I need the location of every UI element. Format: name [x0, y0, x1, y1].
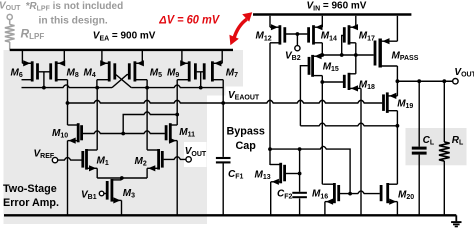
wire RL top	[443, 81, 445, 142]
wire CL top	[418, 81, 420, 146]
wire MPASS source from VIN rail	[396, 16, 398, 41]
wire M16 drain corner	[322, 183, 324, 185]
label M5	[150, 68, 162, 80]
svg-text:Bypass: Bypass	[227, 126, 265, 138]
label CL	[423, 135, 435, 147]
transistor M14	[309, 24, 323, 44]
transistor M20	[381, 183, 397, 205]
wire M10 drain up to VEAOUT	[67, 103, 69, 125]
wire M13 gate	[286, 173, 300, 175]
transistor M18	[344, 73, 361, 92]
wire M8 drain down to VEAOUT node	[67, 80, 69, 103]
wire M10-M11 gates	[83, 131, 165, 134]
transistor M4	[97, 60, 115, 81]
label M20	[398, 190, 414, 202]
wire M11 drain up	[176, 115, 178, 126]
junction dot on gate wire	[121, 132, 125, 136]
junction dot M6/M8 gate node	[42, 86, 46, 90]
white box behind VOUT label (error amp input)	[184, 142, 207, 167]
wire M17 drain down to M18 drain	[355, 43, 357, 74]
label M7	[226, 68, 238, 80]
capacitor CL	[412, 148, 427, 153]
gray box behind load CL RL	[406, 128, 467, 165]
label VOUT (output)	[454, 67, 474, 79]
transistor M16	[324, 183, 339, 205]
label M10	[52, 128, 68, 140]
label M19	[397, 98, 413, 110]
wire M12 drain down to M13	[269, 43, 271, 165]
wire first-stage left drain bus	[22, 85, 113, 88]
terminal VOUT (gray, top-left)	[7, 14, 12, 19]
label M3	[123, 188, 135, 200]
junction dot M17 gate	[340, 53, 344, 57]
wire M2 gate to VOUT input	[164, 157, 187, 160]
gray panel (first-stage PMOS row)	[4, 50, 244, 96]
transistor M13	[270, 163, 285, 185]
ground rail	[4, 214, 456, 216]
capacitor CF1	[216, 158, 231, 162]
junction dot M18 gate tap	[320, 80, 324, 84]
white box behind VEAOUT label	[226, 87, 260, 102]
label M13	[255, 170, 271, 182]
wire M15 gate L	[300, 66, 307, 103]
label RL	[452, 135, 464, 147]
terminal VB2	[295, 46, 300, 51]
gray panel (error-amp lower block)	[4, 96, 208, 225]
junction dot M8/M10 drain on VEAOUT	[66, 101, 70, 105]
svg-text:Two-Stage: Two-Stage	[3, 183, 57, 195]
wire cross-couple to M5 gate	[112, 75, 128, 88]
junction dot CL tap	[417, 79, 421, 83]
label VOUT (gray)	[0, 0, 21, 12]
transistor M10	[68, 123, 82, 144]
transistor M8	[51, 60, 68, 81]
label CF1	[228, 169, 244, 181]
note in this design.	[39, 16, 108, 27]
label VIN = 960 mV	[307, 1, 367, 13]
wire M3 drain to tail dot	[121, 178, 123, 180]
wire M5 drain down	[146, 80, 148, 88]
wire M13 source down to ground	[270, 182, 272, 216]
wire M9/M7 gate to drain wire	[200, 72, 202, 88]
junction dot RL tap	[442, 79, 446, 83]
label MPASS	[392, 50, 419, 62]
svg-text:ΔV = 60 mV: ΔV = 60 mV	[158, 15, 220, 27]
wire M12 source from VIN rail	[269, 16, 271, 27]
wire M16-M20 gates	[340, 191, 380, 194]
label M17	[359, 31, 375, 43]
wire M2 source down to tail	[146, 168, 148, 178]
wire cascode bias L	[123, 112, 177, 134]
junction dot M16/M20 gate node	[348, 192, 352, 196]
label CF2	[277, 189, 293, 201]
wire M16 source down to ground	[324, 202, 326, 216]
transistor M17	[344, 24, 358, 44]
label VB1	[81, 190, 97, 202]
wire M9 drain down to M11 drain	[176, 80, 178, 115]
transistor M19	[384, 92, 398, 113]
terminal VREF	[52, 157, 57, 162]
wire M9-M7 gates	[197, 71, 203, 73]
wire M9 source from VEA rail	[181, 51, 183, 63]
wire M8 source from VEA rail	[63, 51, 65, 63]
junction dot M17 drain	[354, 53, 358, 57]
transistor M5	[129, 60, 147, 81]
wire CF1 bottom to ground	[222, 163, 224, 215]
wire second-stage mirror node	[322, 54, 373, 56]
wire M3 source down to ground	[121, 200, 123, 215]
wire M12-M14 gates	[286, 33, 307, 35]
label Bypass Cap	[227, 126, 265, 153]
transistor M3	[107, 179, 121, 204]
label VOUT (error amp input)	[185, 146, 207, 158]
wire M11 source down to ground	[176, 141, 178, 216]
wire RL bottom to ground	[443, 161, 445, 215]
label deltaV = 60 mV (red)	[158, 15, 220, 27]
label VEA = 900 mV	[93, 31, 156, 43]
wire VEAOUT	[68, 100, 383, 103]
junction dot M14 drain / M15 source	[320, 53, 324, 57]
wire bias bus to M16/M20 gates	[270, 146, 350, 193]
wire M15 drain down to M16 drain	[321, 76, 323, 185]
wire CL bottom to ground	[418, 155, 420, 216]
wire VB2 stub	[296, 34, 298, 46]
wire M10 source down to ground	[67, 141, 69, 216]
transistor M12	[270, 24, 285, 44]
wire VB1 to M3 gate	[104, 193, 107, 195]
wire VREF to M1 gate	[58, 157, 82, 160]
wire VOUT	[397, 80, 453, 82]
wire M6-M8 gates	[39, 71, 50, 73]
terminal VB1	[99, 191, 104, 196]
transistor M11	[166, 123, 177, 144]
wire M7 source from VEA rail	[221, 51, 223, 63]
junction dot tail node	[120, 176, 124, 180]
label M6	[11, 68, 23, 80]
label M1	[97, 156, 109, 168]
label VB2	[285, 51, 301, 63]
svg-text:Cap: Cap	[236, 140, 257, 152]
transistor M7	[204, 60, 223, 81]
resistor RLPF (gray)	[5, 25, 15, 43]
wire M17 source from VIN rail	[355, 16, 357, 27]
wire M4-drain node down to M1 drain	[96, 88, 98, 150]
wire M14 source from VIN rail	[321, 16, 323, 27]
junction dot M19/M20 drain node	[396, 124, 400, 128]
label M14	[321, 31, 337, 43]
wire (gray) VOUT to RLPF	[9, 20, 11, 25]
power rail VEA	[10, 49, 233, 51]
power rail VIN	[253, 13, 411, 16]
wire M20 source down to ground	[396, 202, 398, 216]
wire CF1 top	[222, 103, 224, 157]
wire cross-couple from M4 gate	[116, 75, 131, 88]
wire M6/M8 gate to drain node	[43, 72, 45, 88]
terminal VOUT (output)	[453, 79, 458, 84]
wire M4 source from VEA rail	[101, 51, 103, 63]
wire (gray) RLPF to VEA rail	[9, 42, 11, 50]
label M9	[167, 68, 179, 80]
junction dot M9/M11 drain node	[175, 113, 179, 117]
label M18	[359, 79, 375, 91]
junction dot M9/M7 gate node	[199, 86, 203, 90]
svg-text:in this design.: in this design.	[39, 16, 108, 27]
note *RLPF is not included	[26, 1, 124, 13]
transistor M15	[309, 53, 322, 77]
label VEAOUT	[228, 90, 260, 102]
label M11	[179, 127, 195, 139]
arrow deltaV (red double-headed)	[229, 12, 252, 45]
label RLPF (gray)	[21, 27, 45, 42]
label M8	[67, 68, 79, 80]
wire M6 source from VEA rail	[21, 51, 23, 63]
wire M4 drain down	[96, 80, 98, 88]
wire M18 gate	[322, 81, 343, 83]
wire M14 drain down	[321, 43, 323, 55]
transistor M2	[147, 149, 162, 171]
wire M5 source from VEA rail	[141, 51, 143, 63]
label M16	[312, 189, 328, 201]
junction dot M4 drain node	[95, 86, 99, 90]
label M2	[135, 156, 147, 168]
label M12	[256, 31, 272, 43]
wire M7 drain down to VEAOUT node	[222, 80, 224, 103]
junction dot VEAOUT bypass node	[221, 101, 225, 105]
wire tail node	[97, 177, 147, 179]
terminal VOUT (error amp input)	[186, 157, 191, 162]
wire M1 source down to tail	[96, 168, 98, 178]
junction dot bias bus at CF2	[298, 147, 302, 151]
transistor M1	[83, 149, 97, 171]
wire M15 gate to M19 drain	[299, 103, 301, 126]
junction dot VOUT node at MPASS drain	[396, 79, 400, 83]
wire CF2 top	[299, 149, 301, 192]
junction dot bias bus at M12/M13 drain	[268, 147, 272, 151]
transistor M9	[177, 60, 195, 81]
wire first-stage right drain bus	[131, 85, 223, 88]
svg-text:Error Amp.: Error Amp.	[3, 197, 59, 209]
label VREF	[34, 149, 55, 161]
capacitor CF2	[292, 193, 307, 197]
wire M18 source down to ground	[360, 88, 362, 215]
junction dot VB2 node	[296, 32, 300, 36]
wire M15 source up	[321, 55, 323, 56]
wire M15-gate wire to M19 drain	[300, 123, 397, 126]
junction dot M5 drain node	[145, 86, 149, 90]
wire M17 gate tap	[342, 36, 344, 56]
wire MPASS drain down to VOUT	[396, 66, 398, 96]
wire M19 drain down to M20 drain	[396, 111, 398, 185]
wire CF2 bottom to ground	[299, 198, 301, 215]
label M15	[323, 62, 339, 74]
ground symbol	[451, 215, 461, 226]
wire M5-drain node down to M2 drain	[146, 88, 148, 150]
transistor M6	[22, 60, 38, 81]
resistor RL	[439, 142, 450, 161]
transistor MPASS	[375, 38, 397, 67]
junction dot M13 gate node	[298, 172, 302, 176]
label M4	[84, 68, 96, 80]
label Two-Stage Error Amp.	[3, 183, 59, 209]
